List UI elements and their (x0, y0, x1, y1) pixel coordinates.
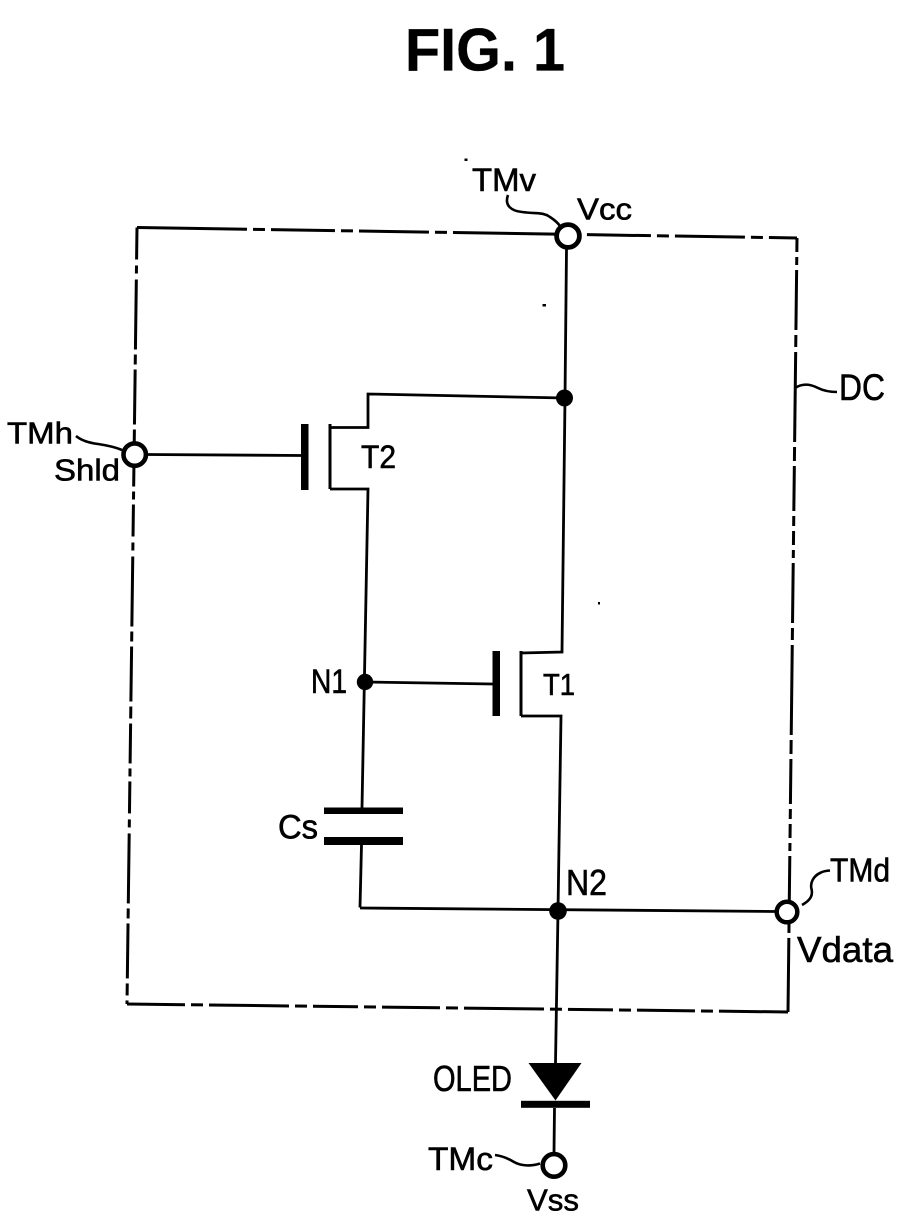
svg-text:Vcc: Vcc (577, 192, 632, 227)
svg-text:TMh: TMh (7, 416, 73, 451)
svg-text:Shld: Shld (54, 453, 120, 488)
svg-text:N1: N1 (311, 663, 347, 701)
svg-text:OLED: OLED (433, 1058, 512, 1099)
svg-text:FIG. 1: FIG. 1 (405, 17, 565, 84)
svg-text:Vdata: Vdata (797, 929, 894, 970)
svg-text:Vss: Vss (527, 1183, 579, 1218)
svg-text:TMc: TMc (428, 1141, 493, 1177)
svg-text:N2: N2 (566, 862, 607, 903)
svg-text:TMv: TMv (472, 162, 536, 198)
svg-text:T1: T1 (543, 667, 575, 702)
svg-text:T2: T2 (361, 439, 396, 475)
svg-text:TMd: TMd (830, 852, 890, 889)
svg-text:DC: DC (839, 367, 885, 408)
svg-text:Cs: Cs (278, 809, 318, 847)
